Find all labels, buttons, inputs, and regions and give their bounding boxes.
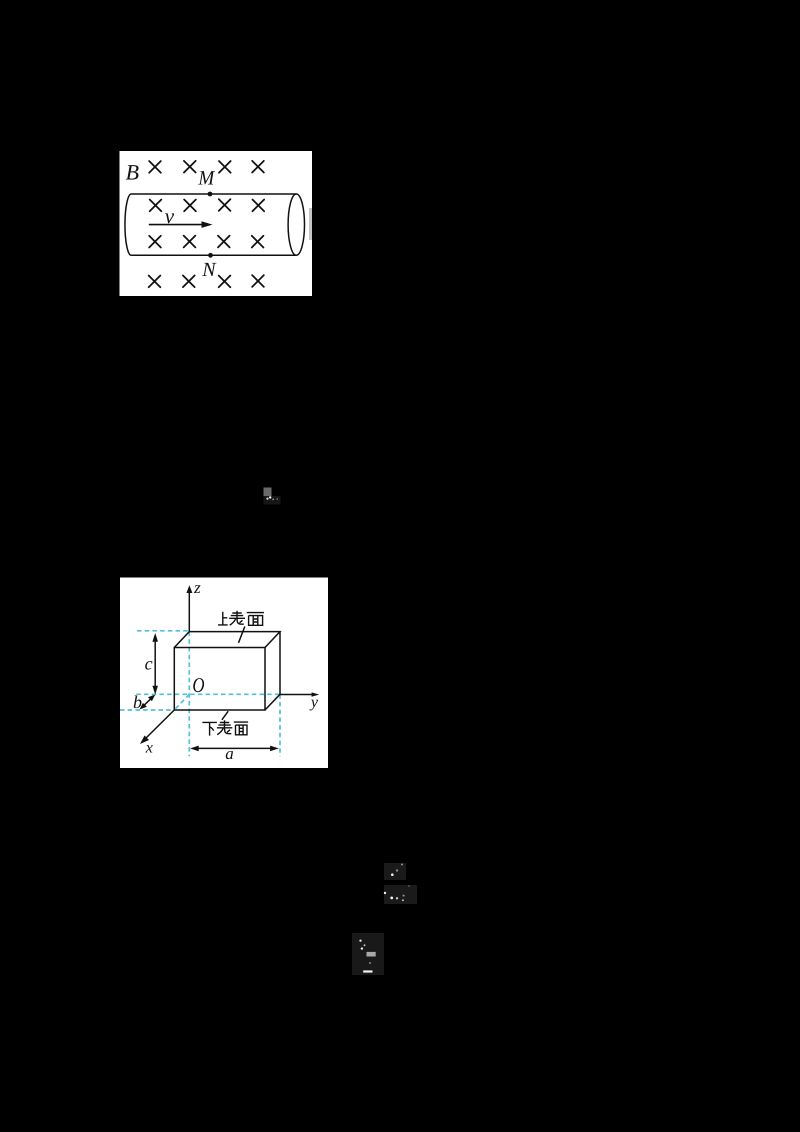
svg-text:N: N xyxy=(201,259,217,281)
v arrow xyxy=(149,224,204,226)
bottom surface pointer line xyxy=(222,711,228,720)
面 xyxy=(247,613,264,626)
field crosses row 3 (inside tube) xyxy=(149,236,263,248)
svg-text:M: M xyxy=(197,167,216,189)
b dimension double arrow xyxy=(143,698,152,707)
z axis xyxy=(188,593,190,632)
c dimension double arrow xyxy=(154,639,156,690)
point M dot xyxy=(208,192,213,197)
svg-text:z: z xyxy=(193,578,201,597)
gray streak remnant at panel right edge xyxy=(309,208,312,240)
faint remnant cluster C near (367,955) xyxy=(352,933,384,975)
面 xyxy=(234,722,248,735)
point N dot xyxy=(208,253,213,258)
svg-text:B: B xyxy=(126,160,139,185)
top surface pointer line xyxy=(239,627,245,643)
cyan dashed hidden edge O to front-bottom-left xyxy=(174,694,189,710)
表 xyxy=(229,611,245,625)
下 xyxy=(202,722,217,735)
figure panel 1: conductor tube in magnetic field xyxy=(120,151,313,296)
svg-text:O: O xyxy=(192,673,204,697)
cyan dashed guide top horizontal xyxy=(137,630,189,632)
box right face edges xyxy=(265,632,280,710)
x axis xyxy=(146,710,175,739)
y axis xyxy=(280,694,313,696)
上 xyxy=(218,612,228,625)
top surface label 上表面 (drawn strokes) xyxy=(218,611,264,626)
bottom surface label 下表面 (drawn strokes) xyxy=(202,720,248,735)
cyan dashed vertical right (a-guide) xyxy=(279,694,281,756)
box front face xyxy=(174,648,265,711)
svg-text:x: x xyxy=(145,739,153,756)
svg-text:v: v xyxy=(165,204,175,228)
faint remnant cluster B near (400,894) xyxy=(384,885,417,904)
tube right end ellipse xyxy=(288,194,304,255)
tube bottom line xyxy=(131,254,296,256)
field crosses row 1 xyxy=(149,161,264,173)
svg-text:b: b xyxy=(133,692,142,712)
表 xyxy=(217,720,232,734)
faint remnant cluster A near (395,871) xyxy=(384,863,406,880)
tube top line xyxy=(131,193,296,195)
tube left end arc xyxy=(125,194,131,255)
a dimension double arrow xyxy=(194,747,275,749)
svg-text:a: a xyxy=(225,744,234,763)
cyan dashed guide bottom-left horizontal xyxy=(120,709,174,711)
field crosses row 2 (inside tube) xyxy=(150,199,265,211)
figure panel 2: box with coordinate axes xyxy=(120,578,328,769)
svg-text:c: c xyxy=(145,653,153,673)
field crosses row 4 (below tube) xyxy=(149,275,264,287)
svg-text:y: y xyxy=(309,694,319,711)
box top face edges xyxy=(174,632,280,648)
faint remnant mark near (268,491) xyxy=(264,488,281,505)
cyan dashed guide middle horizontal through O xyxy=(136,693,280,695)
cyan dashed vertical left (z hidden edge and a-guide) xyxy=(188,632,190,757)
